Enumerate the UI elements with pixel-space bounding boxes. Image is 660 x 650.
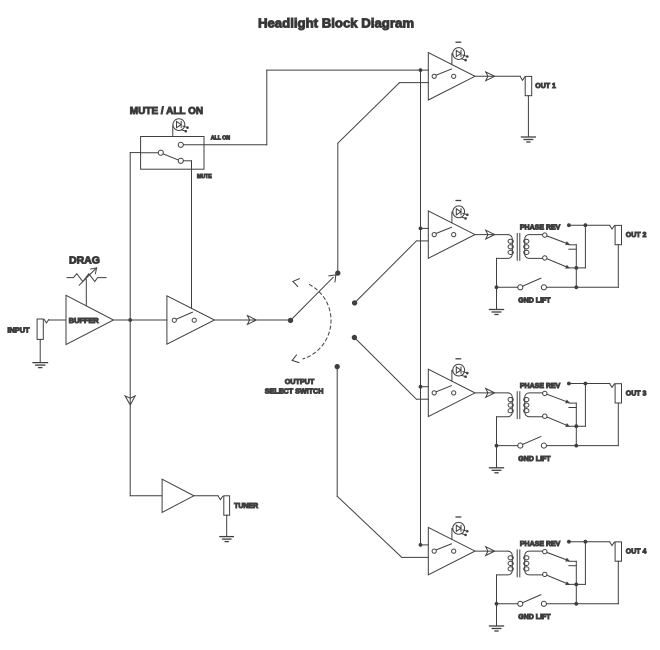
junction top rail out4 [584,540,587,543]
wire contact2 to out2 amp [355,241,429,303]
gnd lift switch out4 [518,595,547,607]
LED out4 indicator [452,517,468,539]
wire top rail out2 [569,224,610,226]
contact MUTE [178,158,183,163]
wire contact3 to out3 amp [354,338,428,400]
wire tap up to mute switch [130,153,140,320]
svg-text:MUTE / ALL ON: MUTE / ALL ON [130,106,203,117]
wire transformer primary to ground out2 [496,258,498,309]
gnd lift switch out3 [518,437,547,449]
wire tuner amp to jack [194,495,218,497]
svg-text:PHASE REV: PHASE REV [520,383,561,390]
wire bus to out2 amp input [421,227,429,229]
out3 amp U5 [428,369,475,416]
svg-text:ALL ON: ALL ON [211,135,230,141]
ground out3 [490,468,504,473]
phase rev pole bottom out3 [543,414,547,418]
phase rev arm bottom out2 [547,259,569,268]
phase rev contacts out2 [569,245,576,287]
wire gnd rail left out4 [497,603,518,605]
input jack J1 [37,319,49,339]
LED D1 mute indicator [173,119,189,137]
junction bus to out3 amp [419,385,422,388]
svg-text:MUTE: MUTE [197,174,212,180]
wire transformer primary to ground out3 [496,417,498,468]
junction phase rev contact rail out3 [575,425,578,428]
mute amp U2 [167,296,215,344]
svg-text:OUT 3: OUT 3 [626,390,647,397]
select switch arm [291,275,336,321]
phase rev arm top out4 [547,552,569,561]
ground tuner [220,537,234,542]
wire ALL ON to bus [183,70,420,145]
phase rev arm bottom out4 [547,575,569,584]
mute switch pole contact [158,150,163,155]
select switch pole [288,318,292,322]
wire tuner jack sleeve [226,515,228,536]
wire mute switch pole [141,152,159,154]
svg-text:DRAG: DRAG [69,255,100,267]
junction ground branch out2 [495,286,498,289]
out1 amp U3 [428,53,475,100]
variable resistor DRAG R1 [67,268,106,285]
wire transformer primary to ground out4 [496,575,498,626]
LED out2 indicator [452,201,468,223]
svg-text:OUTPUT: OUTPUT [285,377,315,386]
wire top rail out3 [569,383,610,385]
select switch contact 2 [352,301,356,305]
phase rev arm top out2 [547,236,569,245]
svg-text:SELECT SWITCH: SELECT SWITCH [265,387,324,396]
junction top rail out2 [584,224,587,227]
junction bus to out2 amp [419,227,422,230]
ground out4 [490,626,504,631]
ground input [33,363,48,368]
svg-text:GND LIFT: GND LIFT [518,456,551,463]
ground out1 [521,137,535,142]
junction ground branch out4 [495,602,498,605]
contact ALL ON [178,142,183,147]
junction top rail out3 [584,382,587,385]
wire bus to out3 amp input [421,386,429,388]
wire out1 jack sleeve [527,96,529,137]
svg-text:OUT 4: OUT 4 [626,549,647,556]
wire contact4 to out4 amp [337,367,428,558]
wire mute amp to select switch [215,316,291,325]
phase rev arm top out3 [547,394,569,403]
junction phase rev contact rail out2 [575,267,578,270]
junction ground branch out3 [495,444,498,447]
wire ALL ON bus vertical [420,70,422,545]
phase rev arm bottom out3 [547,417,569,426]
svg-text:GND LIFT: GND LIFT [518,298,551,305]
node top rail left end out4 [568,540,571,543]
wire contact1 to out1 amp [338,83,429,274]
wire input jack to buffer [49,319,66,321]
wire bus to out1 amp input [421,69,429,71]
wire out3 jack sleeve [547,403,619,446]
out2 amp U4 [428,211,475,258]
mute switch arm [163,154,178,160]
svg-text:GND LIFT: GND LIFT [518,614,551,621]
wire tap down to tuner amp [125,320,162,496]
wire top rail out4 [569,541,610,543]
wire bus to out4 amp input [421,544,429,546]
out4 amp U6 [428,527,475,574]
junction bus to out1 amp [419,69,422,72]
wire gnd rail left out2 [497,286,518,288]
transformer T1 [497,233,543,260]
select switch contact 3 [352,335,356,339]
wire input jack sleeve to ground [39,339,41,362]
wire out4 jack sleeve [547,561,619,604]
wire out2 jack sleeve [547,245,619,288]
select switch rotation arc [292,279,331,363]
select switch contact 1 [336,271,340,275]
output jack OUT4 [610,542,622,561]
wire phase rev lower to top rail out3 [569,384,586,427]
wire out3 amp to transformer [475,389,508,398]
svg-text:Headlight Block Diagram: Headlight Block Diagram [258,16,414,31]
svg-text:INPUT: INPUT [7,326,30,335]
wire MUTE to mute amp [183,161,191,308]
wire phase rev lower to top rail out4 [569,542,586,585]
node top rail left end out2 [568,224,571,227]
phase rev contacts out4 [569,561,576,604]
phase rev pole top out2 [543,233,547,237]
svg-text:PHASE REV: PHASE REV [520,225,561,232]
wire gnd rail left out3 [497,445,518,447]
select switch contact 4 [335,364,339,368]
gnd lift switch out2 [518,278,547,290]
output jack OUT2 [610,225,622,244]
ground out2 [490,310,504,315]
junction phase rev sleeve rail out4 [575,602,578,605]
phase rev pole bottom out2 [543,256,547,260]
phase rev contacts out3 [569,403,576,446]
svg-text:TUNER: TUNER [234,503,258,510]
LED out3 indicator [452,359,468,381]
wire out1 amp to jack [475,72,520,81]
phase rev pole bottom out4 [543,572,547,576]
phase rev pole top out4 [543,549,547,553]
buffer amp U1 [66,295,114,344]
transformer T2 [497,392,543,419]
wire out2 amp to transformer [475,230,508,239]
wire buffer output [114,319,167,321]
junction phase rev contact rail out4 [575,583,578,586]
tuner amp U7 [162,479,194,512]
wire phase rev lower to top rail out2 [569,225,586,268]
tuner jack [218,496,229,515]
svg-text:BUFFER: BUFFER [69,316,100,325]
output jack OUT1 [520,76,531,95]
junction buffer output node [129,319,132,322]
output jack OUT3 [610,384,622,403]
svg-text:OUT 1: OUT 1 [535,83,556,90]
transformer T3 [497,550,543,577]
node top rail left end out3 [568,382,571,385]
svg-text:OUT 2: OUT 2 [626,232,647,239]
phase rev pole top out3 [543,391,547,395]
junction phase rev sleeve rail out2 [575,286,578,289]
mute switch box S1 [141,137,204,170]
wire drag to buffer [85,280,87,306]
junction bus to out4 amp [419,544,422,547]
svg-text:PHASE REV: PHASE REV [520,541,561,548]
junction phase rev sleeve rail out3 [575,444,578,447]
LED out1 indicator [452,42,468,64]
wire out4 amp to transformer [475,547,508,556]
